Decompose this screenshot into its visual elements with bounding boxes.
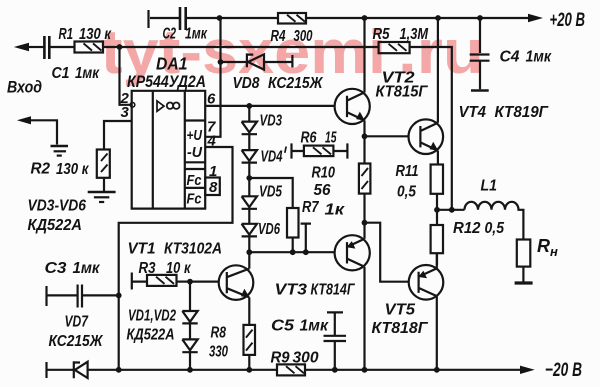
node C3 junction (116, 293, 122, 299)
node rail-VT2 (362, 15, 368, 21)
diode VD1 (182, 282, 197, 340)
transistor VT1 (219, 265, 254, 300)
node stub (303, 249, 309, 255)
wire VT2 emitter to VT4 base (365, 135, 409, 137)
svg-text:VD4: VD4 (261, 149, 283, 166)
input arrow (14, 43, 29, 52)
svg-text:Вход: Вход (7, 78, 42, 97)
svg-text:R6: R6 (301, 130, 317, 147)
resistor R11 (431, 165, 443, 194)
wire VT5 emitter to R12 (436, 253, 438, 268)
svg-text:56: 56 (314, 182, 331, 199)
svg-text:VD3-VD6: VD3-VD6 (28, 198, 87, 215)
svg-text:R3: R3 (139, 260, 156, 277)
svg-text:R9: R9 (271, 350, 290, 367)
wire VT1 collector up (248, 252, 250, 268)
node R7 bottom (290, 249, 296, 255)
zener diode VD8 (221, 53, 293, 67)
terminal tick R6 left (292, 143, 304, 158)
wire output node (437, 209, 465, 211)
svg-text:КТ818Г: КТ818Г (372, 320, 429, 337)
resistor R10 (359, 136, 371, 222)
svg-text:+U: +U (187, 127, 203, 144)
diode VD2 (182, 339, 197, 369)
op-amp symbol triangle-infinity (157, 101, 164, 111)
svg-text:R1: R1 (59, 26, 74, 43)
resistor R9 (277, 364, 305, 375)
ground bar under Rн (515, 281, 533, 284)
svg-text:КС215Ж: КС215Ж (268, 75, 324, 92)
node rail-R4 (217, 15, 223, 21)
resistor R1 (75, 42, 104, 53)
wire VT2 collector to rail (363, 18, 365, 92)
wire VT1 base (190, 281, 219, 283)
load resistor Rн (517, 240, 531, 267)
svg-text:130 к: 130 к (56, 161, 89, 178)
wire +U pin 7 riser to rail (205, 18, 220, 137)
wire +20V top rail (150, 17, 529, 19)
wire VT2 emitter down (363, 120, 365, 136)
svg-text:VT5: VT5 (385, 302, 416, 319)
ground under R2 (88, 191, 116, 194)
zener diode VD7 (48, 361, 278, 378)
svg-text:1к: 1к (325, 202, 346, 219)
capacitor C2 (180, 7, 186, 30)
svg-text:−20 В: −20 В (545, 360, 582, 381)
terminal stub above base line (301, 224, 311, 253)
node rail-VT4 (435, 15, 441, 21)
wire VT5 collector to bottom rail (436, 296, 438, 370)
wire VT1 emitter to R8 (248, 297, 250, 325)
svg-text:0,5: 0,5 (485, 220, 505, 237)
svg-text:-U: -U (187, 144, 203, 161)
node VT2 emitter (362, 133, 368, 139)
svg-text:VD1,VD2: VD1,VD2 (128, 308, 176, 325)
svg-text:R5: R5 (373, 26, 390, 43)
wire VT4 collector to rail (437, 18, 439, 123)
nodes on bottom rail (116, 367, 122, 373)
transistor VT4 (409, 119, 444, 154)
svg-text:R10: R10 (312, 165, 336, 182)
svg-text:R12: R12 (453, 220, 481, 237)
pin 8 box (205, 178, 220, 196)
op-amp DA1 box (132, 91, 206, 209)
node VD6 / VT1 collector (246, 249, 252, 255)
+20V arrow (528, 14, 543, 22)
svg-text:Fс: Fс (187, 172, 203, 189)
capacitor C4 (470, 18, 490, 89)
node VD4-VD5 (246, 175, 252, 181)
wire R1 to inverting input and R5 (103, 46, 379, 48)
capacitor C5 (324, 312, 347, 369)
svg-text:C1: C1 (52, 65, 70, 82)
diode VD4 (242, 150, 257, 178)
svg-text:1мк: 1мк (526, 49, 552, 66)
resistor R5 (379, 42, 410, 53)
tick mark after VD4 (285, 147, 286, 153)
wire op-amp output pin 6 to VT2 base (205, 105, 334, 107)
svg-text:VT1: VT1 (128, 241, 156, 258)
transistor VT3 (PNP) (335, 235, 370, 270)
svg-text:VD8: VD8 (233, 75, 260, 92)
svg-text:R4: R4 (271, 28, 286, 45)
svg-text:VD5: VD5 (259, 184, 282, 201)
wire bottom rail (305, 369, 529, 371)
diode VD3 (242, 106, 257, 150)
wire VT3 base line (249, 251, 334, 253)
svg-text:DA1: DA1 (156, 54, 188, 74)
svg-text:КТ815Г: КТ815Г (376, 84, 429, 101)
svg-text:C5: C5 (271, 318, 294, 335)
C3 terminal tick (45, 286, 47, 306)
svg-text:C2: C2 (163, 26, 177, 43)
svg-text:L1: L1 (481, 178, 498, 195)
svg-text:VT3: VT3 (275, 282, 308, 299)
resistor R6 (304, 143, 348, 158)
pin 2 inversion circle (130, 103, 135, 108)
svg-text:C4: C4 (500, 49, 520, 66)
node R3/VD1/VT1 base (187, 279, 193, 285)
resistor R4 (278, 13, 306, 24)
wire inverting input drop to pin 2 (120, 47, 131, 105)
svg-text:130 к: 130 к (79, 26, 112, 43)
node VD8 supply (218, 59, 224, 65)
svg-text:300: 300 (293, 350, 319, 367)
wire pin 3 to R2 (104, 121, 132, 150)
transistor VT5 (PNP) (409, 265, 444, 300)
svg-text:КР544УД2А: КР544УД2А (127, 72, 206, 91)
wire VD4/VD5 node to R7 (249, 178, 292, 208)
node output feedback (449, 207, 455, 213)
svg-text:R8: R8 (211, 325, 227, 342)
svg-text:КД522А: КД522А (127, 327, 175, 344)
svg-text:КТ814Г: КТ814Г (311, 282, 356, 299)
resistor R12 (436, 210, 438, 225)
svg-text:1мк: 1мк (300, 318, 330, 335)
diode VD6 (242, 224, 257, 252)
terminal bar under C4 (471, 89, 489, 92)
svg-text:3: 3 (121, 104, 130, 121)
svg-text:1мк: 1мк (185, 26, 208, 43)
node op-amp output / VD3 (246, 103, 252, 109)
svg-text:R11: R11 (396, 163, 419, 180)
resistor R7 (287, 208, 299, 252)
svg-text:VD3: VD3 (260, 113, 283, 130)
ground (input) (51, 145, 69, 148)
svg-text:1,3М: 1,3М (400, 26, 429, 43)
svg-text:R2: R2 (31, 161, 51, 178)
svg-text:330: 330 (209, 344, 228, 361)
wire VT3 emitter node to VT5 base (365, 223, 410, 282)
terminal tick bottom-left (45, 362, 47, 378)
wire -U pin 4 down to bottom rail (119, 147, 233, 370)
node rail-C4 (477, 15, 483, 21)
terminal tick top-left (147, 10, 149, 28)
svg-text:300: 300 (294, 28, 313, 45)
resistor R8 (244, 325, 256, 370)
transistor VT2 (335, 89, 370, 124)
wire VT3 emitter up (363, 223, 365, 239)
svg-text:КТ3102А: КТ3102А (164, 241, 222, 258)
wire R5 feedback drop to output node (410, 47, 452, 210)
svg-text:8: 8 (209, 179, 218, 196)
capacitor C3 (48, 285, 119, 308)
svg-text:VT4: VT4 (459, 104, 487, 121)
node VT3 emitter / R10 (362, 220, 368, 226)
diode VD5 (242, 178, 257, 224)
svg-text:КС215Ж: КС215Ж (49, 333, 104, 350)
wire VT3 collector to bottom rail (363, 267, 365, 370)
svg-text:10 к: 10 к (166, 260, 191, 277)
resistor R3 (132, 273, 190, 290)
svg-text:+20 В: +20 В (550, 10, 586, 31)
svg-text:1мк: 1мк (73, 260, 101, 277)
svg-text:VD7: VD7 (65, 314, 90, 331)
resistor R2 (97, 150, 110, 192)
inductor L1 (464, 202, 523, 240)
svg-text:VD6: VD6 (258, 221, 280, 238)
svg-text:R7: R7 (302, 199, 320, 216)
-20V arrow (520, 366, 535, 374)
svg-text:Fс: Fс (187, 191, 203, 208)
capacitor C1 (44, 36, 49, 59)
wire VT4 emitter to R11 (437, 151, 439, 165)
svg-text:15: 15 (325, 130, 337, 147)
node output R11/R12 (434, 207, 440, 213)
svg-text:0,5: 0,5 (397, 184, 416, 201)
svg-text:Rн: Rн (537, 236, 558, 259)
input ground arrow (17, 116, 31, 124)
svg-text:C3: C3 (45, 260, 67, 277)
svg-text:КТ819Г: КТ819Г (495, 104, 550, 121)
svg-text:КД522А: КД522А (28, 217, 83, 234)
node input/feedback (117, 44, 123, 50)
svg-text:1мк: 1мк (75, 65, 100, 82)
